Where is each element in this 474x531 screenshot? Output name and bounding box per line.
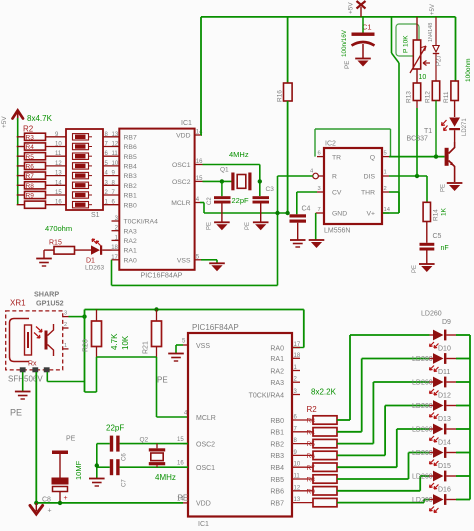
capacitor C7 22pF bbox=[97, 459, 188, 475]
svg-text:1: 1 bbox=[64, 343, 67, 349]
svg-text:14: 14 bbox=[55, 180, 62, 186]
resistor R3 (array R2 2.2K) bbox=[313, 416, 337, 424]
resistor R6 (array R2) bbox=[17, 162, 46, 170]
pin 3 IC2 CV bbox=[317, 191, 324, 193]
pin 9 IC1 RB3 bbox=[292, 454, 313, 456]
wire resistor to switch S1 row 6 bbox=[46, 184, 67, 186]
wire R11 to LED D2 bbox=[454, 101, 456, 118]
svg-text:22pF: 22pF bbox=[106, 424, 124, 433]
svg-text:R8: R8 bbox=[307, 477, 316, 484]
pin 6 IC2 TR bbox=[317, 156, 324, 158]
svg-text:PE: PE bbox=[66, 436, 76, 443]
svg-text:15: 15 bbox=[196, 176, 203, 182]
wire +5V bus left bbox=[17, 118, 19, 205]
svg-text:15: 15 bbox=[177, 437, 184, 443]
svg-text:PE: PE bbox=[207, 222, 213, 230]
timer IC2 LM556N bbox=[324, 141, 382, 235]
svg-text:RB3: RB3 bbox=[124, 173, 137, 180]
ground IC2 GND bbox=[309, 240, 325, 248]
svg-text:7: 7 bbox=[318, 207, 321, 213]
svg-text:2: 2 bbox=[64, 322, 67, 328]
svg-text:LD260: LD260 bbox=[412, 356, 433, 363]
resistor R3 (array R2) bbox=[17, 133, 46, 141]
IR receiver XR1 SHARP GP1U52 bbox=[6, 290, 64, 370]
svg-text:OSC2: OSC2 bbox=[172, 179, 191, 186]
svg-text:10: 10 bbox=[419, 74, 427, 81]
svg-text:R3: R3 bbox=[307, 418, 316, 425]
svg-text:16: 16 bbox=[196, 159, 203, 165]
svg-text:R16: R16 bbox=[277, 90, 284, 102]
svg-text:+5V: +5V bbox=[1, 116, 8, 128]
resistor R5 (array R2 2.2K) bbox=[313, 439, 337, 447]
wire S1 pin to IC1 RB0 bbox=[103, 204, 119, 206]
wire R to LED D10 bbox=[337, 431, 362, 433]
svg-text:IC1: IC1 bbox=[181, 120, 192, 127]
svg-text:R7: R7 bbox=[307, 465, 316, 472]
wire VSS to ground bbox=[176, 344, 183, 346]
svg-text:1: 1 bbox=[384, 170, 387, 176]
svg-text:LM556N: LM556N bbox=[324, 228, 350, 235]
pin 13 IC1 RB7 bbox=[292, 502, 313, 504]
svg-text:C4: C4 bbox=[302, 206, 311, 213]
svg-text:LD260: LD260 bbox=[412, 450, 433, 457]
svg-text:4MHz: 4MHz bbox=[155, 473, 176, 482]
svg-text:PE: PE bbox=[178, 494, 189, 503]
svg-text:BC337: BC337 bbox=[407, 136, 429, 143]
svg-text:RB7: RB7 bbox=[270, 500, 284, 507]
wire rail jog down to V+ bbox=[391, 17, 393, 53]
wire RA0 IC1 to IC2 reset net bbox=[111, 260, 113, 286]
resistor R7 (array R2 2.2K) bbox=[313, 463, 337, 471]
svg-text:VDD: VDD bbox=[196, 501, 211, 508]
svg-text:R4: R4 bbox=[26, 144, 35, 151]
ground PE under C1 bbox=[355, 59, 371, 67]
LED D11 bbox=[430, 377, 457, 395]
svg-text:18: 18 bbox=[294, 353, 301, 359]
svg-text:LD260: LD260 bbox=[412, 427, 433, 434]
svg-text:RA2: RA2 bbox=[270, 368, 284, 375]
svg-text:R3: R3 bbox=[26, 134, 35, 141]
supply arrow down bbox=[30, 506, 43, 515]
svg-text:RA1: RA1 bbox=[124, 248, 137, 255]
svg-text:nF: nF bbox=[441, 245, 449, 252]
diode D3 1N4148 bbox=[433, 17, 439, 81]
svg-text:RA2: RA2 bbox=[124, 238, 137, 245]
wire XR1 gnd pad down bbox=[35, 372, 37, 503]
pin 10 IC1 RB4 bbox=[292, 466, 313, 468]
supply +5V arrow top-left bbox=[13, 111, 24, 121]
svg-text:D15: D15 bbox=[438, 463, 451, 470]
svg-text:RB5: RB5 bbox=[124, 154, 137, 161]
wire R reset net bbox=[278, 175, 313, 177]
wire R16 to MCLR net bbox=[287, 101, 289, 213]
svg-text:RB5: RB5 bbox=[270, 477, 284, 484]
svg-text:11: 11 bbox=[55, 151, 62, 157]
pin 2 IC1 RA3 bbox=[112, 230, 120, 232]
wire S1 pin to IC1 RB1 bbox=[103, 194, 119, 196]
svg-text:C3: C3 bbox=[266, 186, 275, 193]
resistor R21 10K bbox=[143, 310, 162, 358]
svg-text:PE: PE bbox=[10, 408, 22, 418]
ground VSS IC1 bbox=[209, 263, 225, 271]
capacitor C4 bbox=[290, 206, 311, 240]
ground under C2 bbox=[214, 222, 230, 230]
wire resistor to switch S1 row 1 bbox=[46, 136, 67, 138]
wire S1 pin to IC1 RB3 bbox=[103, 175, 119, 177]
pin 5 IC2 Q bbox=[382, 156, 389, 158]
LED D13 bbox=[430, 424, 457, 442]
pin 5 IC1 VSS bbox=[183, 344, 188, 346]
pin 1 IC1 RA2 bbox=[112, 239, 120, 241]
pin 2 IC1 RA3 bbox=[292, 381, 300, 383]
pin 6 IC1 RB0 bbox=[292, 419, 313, 421]
svg-text:1N4148: 1N4148 bbox=[428, 23, 434, 42]
svg-text:PIC16F84AP: PIC16F84AP bbox=[141, 271, 183, 280]
wire OSC1 to crystal right / C3 bbox=[203, 164, 260, 166]
svg-text:LD260: LD260 bbox=[421, 311, 442, 318]
pin 18 IC1 RA1 bbox=[292, 357, 300, 359]
svg-text:VDD: VDD bbox=[176, 133, 190, 140]
LED D2 infrared bbox=[442, 118, 469, 137]
svg-text:RA0: RA0 bbox=[124, 257, 137, 264]
pin 8 IC1 RB2 bbox=[292, 443, 313, 445]
svg-text:LD271: LD271 bbox=[462, 118, 468, 136]
svg-text:1K: 1K bbox=[441, 207, 448, 216]
svg-text:+: + bbox=[64, 495, 68, 502]
capacitor C5 bbox=[420, 222, 442, 264]
svg-text:C6: C6 bbox=[122, 453, 128, 461]
svg-text:TR: TR bbox=[332, 154, 341, 161]
wire S1 pin to IC1 RB2 bbox=[103, 184, 119, 186]
ground under C3 bbox=[253, 222, 269, 230]
wire +5V top rail bbox=[201, 16, 456, 18]
LED D16 bbox=[430, 494, 457, 512]
pin 15 IC1 bbox=[195, 180, 203, 182]
resistor R6 (array R2 2.2K) bbox=[313, 451, 337, 459]
svg-text:V+: V+ bbox=[366, 211, 375, 218]
wire DIS to R13/R14 bbox=[389, 175, 427, 177]
wire LED cathode bus bbox=[469, 335, 471, 500]
svg-text:+5V: +5V bbox=[348, 2, 355, 14]
svg-text:OSC2: OSC2 bbox=[196, 442, 215, 449]
pads XR1 bottom bbox=[20, 367, 26, 372]
svg-text:VSS: VSS bbox=[196, 343, 210, 350]
svg-text:T1: T1 bbox=[424, 128, 432, 135]
wire LED cathode to bus bbox=[456, 405, 470, 407]
wire Q output to T1 base bbox=[389, 156, 445, 158]
wire resistor to switch S1 row 8 bbox=[46, 204, 67, 206]
svg-text:RB6: RB6 bbox=[124, 144, 137, 151]
wire XR1 out to divider rail bbox=[69, 316, 85, 318]
resistor R14 bbox=[423, 202, 439, 221]
wire LED cathode to bus bbox=[456, 452, 470, 454]
svg-text:13: 13 bbox=[112, 132, 119, 138]
svg-text:RA3: RA3 bbox=[270, 380, 284, 387]
crystal Q1 bbox=[220, 167, 252, 191]
resistor R20 4.7K bbox=[83, 310, 102, 358]
resistor R9 (array R2) bbox=[17, 191, 46, 199]
pin 14 IC1 bbox=[195, 134, 202, 136]
svg-text:22pF: 22pF bbox=[232, 196, 250, 205]
svg-text:14: 14 bbox=[196, 130, 203, 136]
svg-text:PE: PE bbox=[157, 376, 168, 385]
svg-text:R6: R6 bbox=[26, 164, 35, 171]
pin 14 IC2 V+ bbox=[382, 212, 389, 214]
wire THR to V+ column bbox=[389, 191, 399, 193]
svg-text:IC1: IC1 bbox=[198, 521, 209, 528]
pin 1 IC2 DIS bbox=[382, 175, 389, 177]
capacitor C3 bbox=[253, 186, 275, 222]
svg-text:PE: PE bbox=[412, 265, 418, 273]
svg-text:6: 6 bbox=[318, 151, 321, 157]
pin 3 IC1 T0CKI/RA4 bbox=[292, 394, 300, 396]
resistor R7 (array R2) bbox=[17, 172, 46, 180]
wire R to LED D11 bbox=[337, 443, 373, 445]
wire S1 pin to IC1 RB6 bbox=[103, 146, 119, 148]
svg-text:T0CKI/RA4: T0CKI/RA4 bbox=[249, 392, 285, 399]
ground crystal caps bbox=[89, 479, 105, 487]
wire R to LED D13 bbox=[337, 466, 397, 468]
svg-text:Rx: Rx bbox=[28, 361, 37, 368]
LED D10 bbox=[430, 353, 457, 371]
svg-text:LD263: LD263 bbox=[85, 265, 105, 272]
wire R15 to ground bbox=[44, 249, 54, 251]
svg-text:LD260: LD260 bbox=[412, 474, 433, 481]
wire rail to RA0 bbox=[303, 310, 305, 348]
LED D15 bbox=[430, 471, 457, 489]
svg-text:8x2.2K: 8x2.2K bbox=[311, 388, 337, 397]
svg-text:4.7K: 4.7K bbox=[110, 333, 119, 350]
capacitor C8 10MF electrolytic bbox=[42, 451, 69, 515]
crystal Q2 4MHz bbox=[140, 437, 166, 468]
ground under C4 bbox=[290, 240, 306, 247]
resistor R11 bbox=[455, 17, 457, 81]
resistor R10 (array R2 2.2K) bbox=[313, 498, 337, 506]
pin 4 IC1 bbox=[195, 202, 200, 204]
pin 7 IC1 RB1 bbox=[292, 431, 313, 433]
svg-text:10: 10 bbox=[112, 161, 119, 167]
svg-text:R5: R5 bbox=[26, 154, 35, 161]
pin 11 IC1 RB5 bbox=[292, 478, 313, 480]
svg-text:PIC16F84AP: PIC16F84AP bbox=[192, 323, 239, 332]
svg-text:RB4: RB4 bbox=[270, 465, 284, 472]
wire resistor to switch S1 row 7 bbox=[46, 194, 67, 196]
svg-text:12: 12 bbox=[55, 161, 62, 167]
svg-text:18: 18 bbox=[111, 245, 118, 251]
resistor R13 bbox=[406, 83, 421, 108]
svg-text:LD260: LD260 bbox=[412, 497, 433, 504]
svg-text:R20: R20 bbox=[83, 339, 90, 352]
wire resistor to switch S1 row 2 bbox=[46, 146, 67, 148]
wire LED cathode to bus bbox=[456, 334, 470, 336]
svg-text:10MF: 10MF bbox=[74, 460, 83, 480]
supply +5V cross flag top bbox=[357, 1, 366, 17]
svg-text:RA1: RA1 bbox=[270, 356, 284, 363]
wire R to LED D16 bbox=[337, 502, 424, 504]
svg-text:13: 13 bbox=[55, 171, 62, 177]
LED D9 bbox=[430, 330, 457, 348]
capacitor C1 bbox=[352, 17, 375, 58]
wire S1 pin to IC1 RB5 bbox=[103, 155, 119, 157]
pin 3 IC1 T0CKI/RA4 bbox=[112, 220, 120, 222]
wire jog to R20 bottom bbox=[85, 391, 97, 393]
svg-text:+5V: +5V bbox=[430, 4, 436, 15]
svg-text:11: 11 bbox=[294, 474, 301, 480]
wire LED cathode to bus bbox=[456, 499, 470, 501]
svg-text:R13: R13 bbox=[406, 91, 413, 103]
wire caps common to ground bbox=[96, 444, 98, 478]
transistor T1 BC337 bbox=[407, 128, 455, 182]
capacitor C2 bbox=[207, 181, 231, 222]
svg-text:C7: C7 bbox=[122, 479, 128, 487]
pin 17 IC1 RA0 bbox=[112, 259, 120, 261]
svg-text:Q1: Q1 bbox=[220, 167, 229, 174]
ground R15 bbox=[36, 259, 52, 267]
wire TR feedback loop bbox=[314, 129, 316, 157]
pin 14 IC1 VDD bbox=[183, 502, 188, 504]
svg-text:XR1: XR1 bbox=[10, 299, 26, 308]
svg-text:RB6: RB6 bbox=[270, 489, 284, 496]
svg-text:R2: R2 bbox=[307, 405, 318, 414]
svg-text:5: 5 bbox=[384, 151, 387, 157]
svg-text:3: 3 bbox=[64, 311, 67, 317]
svg-text:T0CKI/RA4: T0CKI/RA4 bbox=[124, 219, 159, 226]
svg-text:11: 11 bbox=[112, 151, 119, 157]
svg-text:RB2: RB2 bbox=[124, 183, 137, 190]
svg-text:LD260: LD260 bbox=[412, 380, 433, 387]
svg-text:PE: PE bbox=[245, 222, 251, 230]
pin 18 IC1 RA1 bbox=[112, 249, 120, 251]
svg-text:OSC1: OSC1 bbox=[196, 465, 215, 472]
svg-text:12: 12 bbox=[294, 485, 301, 491]
svg-text:17: 17 bbox=[111, 255, 118, 261]
svg-text:RA3: RA3 bbox=[124, 228, 137, 235]
resistor R15 bbox=[49, 240, 75, 255]
resistor R5 (array R2) bbox=[17, 153, 46, 161]
svg-text:RA0: RA0 bbox=[270, 345, 284, 352]
svg-text:P 10K: P 10K bbox=[403, 35, 410, 53]
svg-text:D16: D16 bbox=[438, 487, 451, 494]
svg-text:+: + bbox=[48, 508, 52, 515]
svg-text:R4: R4 bbox=[307, 429, 316, 436]
wire R to LED D15 bbox=[337, 490, 420, 492]
resistor R4 (array R2) bbox=[17, 143, 46, 151]
svg-text:D9: D9 bbox=[442, 319, 451, 326]
svg-text:Q2: Q2 bbox=[140, 437, 149, 444]
svg-text:10: 10 bbox=[294, 462, 301, 468]
pin 16 IC1 OSC1 bbox=[183, 466, 188, 468]
svg-text:R12: R12 bbox=[425, 91, 432, 103]
svg-text:GND: GND bbox=[332, 211, 347, 218]
pin 7 IC2 GND bbox=[316, 212, 324, 214]
svg-text:RB2: RB2 bbox=[270, 441, 284, 448]
svg-text:100ohm: 100ohm bbox=[465, 59, 472, 83]
svg-text:16: 16 bbox=[55, 200, 62, 206]
svg-text:PE: PE bbox=[344, 61, 351, 69]
wire R12 to base junction bbox=[435, 101, 437, 157]
pin 16 IC1 bbox=[195, 164, 203, 166]
pin stubs XR1 right bbox=[63, 316, 69, 318]
wire D1 to IC1 RA1 bbox=[102, 249, 111, 251]
pin 15 IC1 OSC2 bbox=[183, 443, 188, 445]
svg-text:S1: S1 bbox=[91, 212, 100, 219]
svg-text:R2: R2 bbox=[23, 125, 34, 134]
svg-text:R5: R5 bbox=[307, 441, 316, 448]
wire MCLR IC1 bbox=[200, 202, 204, 204]
wire R to LED D9 bbox=[337, 419, 350, 421]
wire resistor to switch S1 row 4 bbox=[46, 165, 67, 167]
svg-text:MCLR: MCLR bbox=[196, 415, 216, 422]
svg-text:100n/16V: 100n/16V bbox=[341, 29, 348, 57]
wire +5V rail bottom section bbox=[85, 309, 304, 311]
wire LED cathode to bus bbox=[456, 475, 470, 477]
resistor R8 (array R2 2.2K) bbox=[313, 475, 337, 483]
wire S1 pin to IC1 RB4 bbox=[103, 165, 119, 167]
svg-text:RB3: RB3 bbox=[270, 453, 284, 460]
wire S1 pin to IC1 RB7 bbox=[103, 136, 119, 138]
svg-text:D11: D11 bbox=[438, 369, 450, 376]
svg-text:17: 17 bbox=[294, 342, 301, 348]
wire R to LED D12 bbox=[337, 454, 385, 456]
svg-text:RB7: RB7 bbox=[124, 134, 137, 141]
wire resistor to switch S1 row 3 bbox=[46, 155, 67, 157]
svg-text:D1: D1 bbox=[86, 258, 95, 265]
svg-text:THR: THR bbox=[361, 190, 375, 197]
pin 1 IC1 RA2 bbox=[292, 370, 300, 372]
svg-text:Q: Q bbox=[370, 154, 375, 161]
wire V+ to +5V bbox=[383, 212, 399, 214]
resistor R16 MCLR pullup bbox=[287, 17, 289, 83]
capacitor C6 22pF bbox=[97, 436, 188, 452]
svg-text:13: 13 bbox=[294, 497, 301, 503]
svg-text:DIS: DIS bbox=[364, 174, 376, 181]
wire rail to IC1 VDD bbox=[200, 17, 202, 135]
svg-text:R9: R9 bbox=[26, 193, 35, 200]
svg-text:R7: R7 bbox=[26, 173, 35, 180]
svg-text:R: R bbox=[332, 174, 337, 181]
wire OSC2 to crystal left / C2 bbox=[203, 180, 232, 182]
LED D12 bbox=[430, 400, 457, 418]
svg-text:RB4: RB4 bbox=[124, 164, 137, 171]
svg-text:RB0: RB0 bbox=[124, 202, 137, 209]
wire CV to C4 bbox=[297, 191, 317, 193]
LED D1 bbox=[75, 249, 92, 251]
svg-text:14: 14 bbox=[384, 207, 391, 213]
svg-text:CV: CV bbox=[332, 190, 342, 197]
svg-text:IC2: IC2 bbox=[325, 141, 336, 148]
svg-text:PE: PE bbox=[441, 184, 447, 192]
pin 5 IC1 bbox=[195, 259, 201, 261]
svg-text:P2J: P2J bbox=[437, 56, 443, 66]
wire LED cathode to bus bbox=[456, 428, 470, 430]
resistor R4 (array R2 2.2K) bbox=[313, 428, 337, 436]
svg-text:RB1: RB1 bbox=[270, 430, 284, 437]
svg-text:10K: 10K bbox=[121, 335, 130, 350]
svg-text:RB1: RB1 bbox=[124, 193, 137, 200]
svg-text:D13: D13 bbox=[438, 416, 451, 423]
wire resistor to switch S1 row 5 bbox=[46, 175, 67, 177]
svg-text:15: 15 bbox=[55, 190, 62, 196]
op IC1 PIC16F84AP (bottom receiver MCU) bbox=[188, 323, 292, 528]
resistor R10 (array R2) bbox=[17, 201, 46, 208]
svg-text:D12: D12 bbox=[438, 393, 451, 400]
svg-text:MCLR: MCLR bbox=[171, 200, 190, 207]
wire VSS IC1 to ground bbox=[201, 259, 217, 261]
svg-text:SFH506V: SFH506V bbox=[8, 375, 43, 384]
wire LED cathode to bus bbox=[456, 358, 470, 360]
svg-text:LD260: LD260 bbox=[412, 403, 433, 410]
svg-text:R8: R8 bbox=[26, 183, 35, 190]
